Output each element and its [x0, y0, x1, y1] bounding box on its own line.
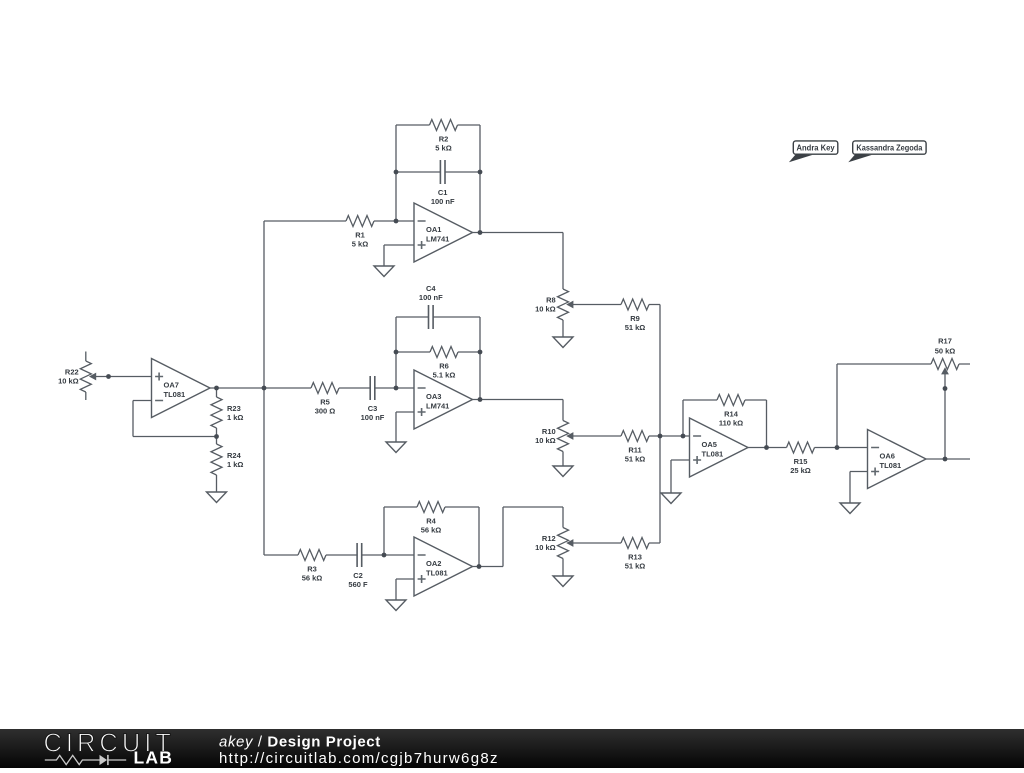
svg-text:TL081: TL081 [880, 461, 902, 470]
svg-text:R23: R23 [227, 404, 241, 413]
svg-text:300 Ω: 300 Ω [315, 407, 336, 416]
svg-text:akey / Design Project: akey / Design Project [219, 734, 381, 751]
svg-text:R5: R5 [320, 398, 330, 407]
svg-text:http://circuitlab.com/cgjb7hur: http://circuitlab.com/cgjb7hurw6g8z [219, 750, 499, 767]
svg-text:R22: R22 [65, 368, 79, 377]
svg-text:10 kΩ: 10 kΩ [535, 543, 556, 552]
svg-text:R8: R8 [546, 296, 556, 305]
svg-text:TL081: TL081 [426, 569, 448, 578]
svg-text:R13: R13 [628, 553, 642, 562]
svg-text:LM741: LM741 [426, 235, 449, 244]
svg-text:51 kΩ: 51 kΩ [625, 562, 646, 571]
svg-text:Andra Key: Andra Key [797, 144, 835, 153]
svg-text:TL081: TL081 [702, 450, 724, 459]
svg-text:5.1 kΩ: 5.1 kΩ [433, 371, 456, 380]
svg-text:50 kΩ: 50 kΩ [935, 346, 956, 355]
svg-text:R9: R9 [630, 314, 640, 323]
svg-text:10 kΩ: 10 kΩ [58, 377, 79, 386]
svg-text:OA5: OA5 [702, 440, 717, 449]
svg-text:R10: R10 [542, 427, 556, 436]
svg-text:R24: R24 [227, 451, 242, 460]
svg-text:OA3: OA3 [426, 392, 441, 401]
svg-text:R15: R15 [794, 457, 808, 466]
svg-text:5 kΩ: 5 kΩ [435, 144, 451, 153]
svg-text:OA6: OA6 [880, 452, 895, 461]
svg-text:C2: C2 [353, 571, 363, 580]
svg-text:5 kΩ: 5 kΩ [352, 240, 368, 249]
svg-text:10 kΩ: 10 kΩ [535, 436, 556, 445]
svg-text:100 nF: 100 nF [431, 197, 455, 206]
svg-text:OA2: OA2 [426, 559, 441, 568]
svg-text:R14: R14 [724, 410, 739, 419]
svg-text:51 kΩ: 51 kΩ [625, 323, 646, 332]
svg-text:R3: R3 [307, 565, 317, 574]
svg-text:LM741: LM741 [426, 402, 449, 411]
svg-text:R17: R17 [938, 336, 952, 345]
svg-text:R2: R2 [439, 135, 449, 144]
svg-text:R11: R11 [628, 446, 641, 455]
svg-text:OA7: OA7 [164, 381, 179, 390]
svg-text:OA1: OA1 [426, 225, 441, 234]
svg-text:C1: C1 [438, 188, 448, 197]
svg-text:R6: R6 [439, 362, 449, 371]
svg-text:1 kΩ: 1 kΩ [227, 413, 243, 422]
svg-text:1 kΩ: 1 kΩ [227, 460, 243, 469]
svg-text:C4: C4 [426, 284, 436, 293]
svg-text:TL081: TL081 [164, 390, 186, 399]
svg-text:R12: R12 [542, 534, 556, 543]
svg-text:110 kΩ: 110 kΩ [719, 419, 743, 428]
svg-text:56 kΩ: 56 kΩ [302, 574, 323, 583]
svg-text:25 kΩ: 25 kΩ [790, 466, 811, 475]
svg-text:560 F: 560 F [348, 580, 368, 589]
svg-text:R1: R1 [355, 231, 365, 240]
svg-text:Kassandra Zegoda: Kassandra Zegoda [856, 144, 922, 153]
svg-text:100 nF: 100 nF [419, 293, 443, 302]
svg-text:C3: C3 [368, 404, 378, 413]
svg-text:100 nF: 100 nF [361, 413, 385, 422]
svg-text:LAB: LAB [134, 748, 174, 768]
svg-text:51 kΩ: 51 kΩ [625, 455, 646, 464]
svg-text:56 kΩ: 56 kΩ [421, 526, 442, 535]
svg-text:10 kΩ: 10 kΩ [535, 305, 556, 314]
svg-text:R4: R4 [426, 517, 436, 526]
